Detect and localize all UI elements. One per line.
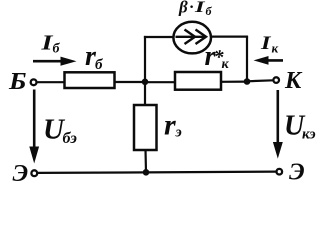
svg-text:β: β (178, 0, 188, 17)
svg-text:Э: Э (13, 161, 29, 185)
voltage arrow U_кэ (273, 90, 283, 159)
svg-text:К: К (284, 68, 303, 94)
terminal Б (31, 79, 37, 85)
label Б (8, 69, 27, 95)
svg-text:Б: Б (8, 69, 27, 95)
terminal К (273, 77, 279, 83)
wire node C1 to К (247, 80, 273, 81)
label U_бэ (43, 113, 77, 147)
wire top right down to node C1 (246, 37, 248, 82)
wire r_э to node E1 (144, 150, 147, 173)
resistor r_б (65, 72, 115, 88)
wire node B1 up (144, 36, 146, 82)
label r_э (164, 108, 182, 141)
label Э right (289, 160, 305, 186)
label Э left (13, 161, 29, 187)
label I_б (40, 31, 60, 57)
label r_б (85, 41, 103, 73)
svg-text:б: б (53, 42, 61, 57)
label U_кэ (284, 110, 316, 142)
resistor r_э (134, 105, 157, 150)
label r*_к (205, 41, 230, 72)
node B1 junction dot (142, 79, 149, 86)
svg-text:к: к (272, 41, 279, 56)
wire top left to current source (144, 36, 175, 38)
label β·I_б (178, 0, 213, 18)
svg-text:к: к (222, 57, 230, 72)
wire r*_к to node C1 (221, 80, 247, 82)
wire node B1 to r*_к (145, 81, 176, 83)
node C1 junction dot (244, 78, 251, 85)
wire r_б to node B1 (115, 81, 146, 83)
svg-text:э: э (175, 125, 182, 141)
svg-text:б: б (95, 57, 103, 73)
svg-text:б: б (206, 4, 213, 18)
current source β·I_б (173, 22, 211, 54)
label К (284, 68, 303, 94)
terminal Э left (31, 170, 37, 176)
svg-text:Э: Э (289, 160, 305, 186)
wire current source to top right corner (210, 35, 248, 37)
resistor r*_к (175, 72, 221, 90)
svg-text:·: · (190, 0, 194, 16)
label I_к (260, 33, 279, 56)
svg-text:I: I (193, 0, 205, 16)
wire node B1 down to r_э (144, 82, 146, 106)
bottom rail wire Э left to node E1 (38, 171, 146, 174)
voltage arrow U_бэ (29, 90, 39, 164)
wire Б to r_б (38, 81, 66, 83)
node E1 junction dot (143, 169, 150, 176)
current arrow I_к (254, 56, 284, 65)
svg-text:кэ: кэ (302, 127, 316, 143)
bottom rail wire node E1 to Э right (146, 171, 276, 174)
svg-text:r: r (164, 108, 176, 141)
svg-text:I: I (260, 33, 272, 54)
current arrow I_б (33, 57, 77, 66)
svg-text:бэ: бэ (63, 130, 78, 147)
terminal Э right (277, 169, 283, 175)
